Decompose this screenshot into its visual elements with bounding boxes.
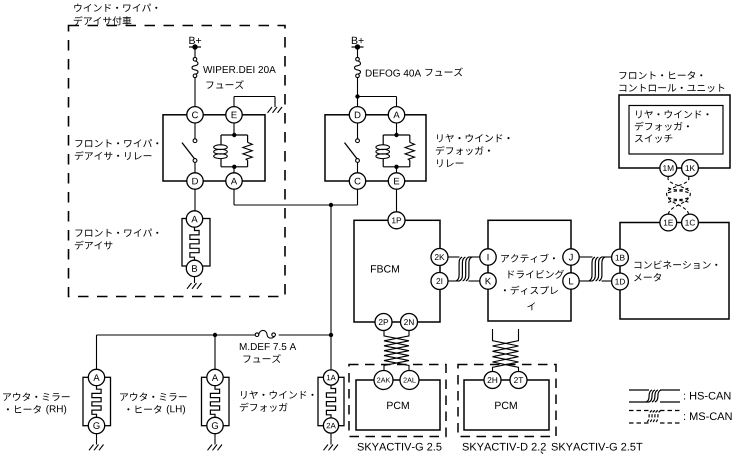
pin A relay K1 <box>226 173 242 189</box>
fuse DEFOG 40A <box>355 57 361 77</box>
wire junction to relay pin A <box>358 97 397 108</box>
pin K display <box>480 273 496 289</box>
front wiper de-icer element <box>182 219 210 267</box>
HS-CAN bus display to combination meter <box>580 257 612 281</box>
label SKYACTIV-G 2.5 <box>357 443 441 451</box>
power B+ (wiper de-icer fuse feed) <box>189 37 201 50</box>
label outer mirror heater LH <box>120 393 186 401</box>
pin D relay K2 <box>349 107 365 123</box>
legend label HS-CAN <box>684 392 730 400</box>
active driving display box <box>488 220 571 321</box>
switch relay K2 <box>345 139 360 163</box>
junction node defogger feed <box>329 203 333 207</box>
PCM box (SKYACTIV-D 2.2 / G 2.5T) <box>464 380 549 430</box>
pin A mirror RH <box>88 369 104 385</box>
MS-CAN bus control unit to meter (twisted pair) <box>668 177 690 214</box>
ground (mirror LH) <box>208 434 223 451</box>
label SKYACTIV-D 2.2, SKYACTIV-G 2.5T <box>462 443 545 451</box>
pin B de-icer <box>186 260 202 276</box>
label rear window defogger relay <box>437 134 509 142</box>
label front wiper de-icer <box>75 229 158 237</box>
pin 1K control unit <box>682 160 699 177</box>
label front wiper de-icer relay <box>75 139 158 147</box>
wire E to coil <box>233 123 235 135</box>
pin 1M control unit <box>660 160 677 177</box>
front heater control unit box <box>619 95 730 168</box>
front heater control unit label <box>619 71 702 79</box>
legend MS-CAN symbol <box>629 410 680 423</box>
wire relay K2 E to FBCM 1P <box>396 189 398 212</box>
wires display to PCM twisted pair <box>493 329 519 337</box>
pin 2I FBCM <box>431 273 448 290</box>
pin C relay K2 <box>349 173 365 189</box>
PCM box (SKYACTIV-G 2.5) <box>356 380 440 430</box>
wire B+ to fuse <box>357 47 359 58</box>
label PCM <box>387 402 409 409</box>
wire E to ground <box>234 97 275 107</box>
pin 2K FBCM <box>431 249 448 266</box>
pin 2AK PCM <box>374 371 393 390</box>
pin E relay K1 <box>226 107 242 123</box>
wire relay K1 D to de-icer pin A <box>194 189 196 211</box>
pin 2AL PCM <box>400 371 419 390</box>
wire coil to E <box>396 167 398 173</box>
pin 1A defogger <box>323 370 338 385</box>
pin C relay K1 <box>187 107 203 123</box>
label DEFOG 40A fuse <box>366 70 421 77</box>
label combination meter <box>635 260 718 269</box>
FBCM box <box>354 220 440 322</box>
ground (mirror RH) <box>89 434 104 451</box>
rear window defogger switch box <box>629 106 723 155</box>
fuse M.DEF 7.5A <box>255 330 275 338</box>
pin G mirror LH <box>207 417 223 433</box>
note: vehicles with window wiper de-icer label <box>74 4 157 12</box>
outer mirror heater LH element <box>202 377 230 425</box>
label active driving display <box>501 254 555 263</box>
pin 1B meter <box>612 249 629 266</box>
heater bus wire (defogger feed) <box>97 335 332 370</box>
wire fuse to relay pin C <box>194 78 196 107</box>
wire B+ to fuse <box>194 47 196 58</box>
fuse WIPER.DEI 20A <box>192 57 198 77</box>
pin L display <box>563 273 579 289</box>
wire C to switch contact <box>194 123 196 139</box>
pin 2N FBCM <box>401 314 418 331</box>
pin 2P FBCM <box>375 314 392 331</box>
power B+ (DEFOG fuse feed) <box>352 37 364 50</box>
relay K1 front wiper de-icer relay box <box>163 115 265 181</box>
outer mirror heater RH element <box>83 377 111 425</box>
junction B+ branch <box>355 94 359 98</box>
wire bus to rear defogger 1A <box>330 335 332 370</box>
wire switch to C <box>357 162 359 172</box>
pin 2T PCM <box>510 372 527 389</box>
pin D relay K1 <box>187 173 203 189</box>
PCM dashed option box (SKYACTIV-D 2.2 / G 2.5T) <box>458 365 556 437</box>
wire junction down to heater bus <box>330 205 332 335</box>
wire D to switch contact <box>357 123 359 139</box>
label outer mirror heater RH <box>3 393 69 401</box>
wire A to coil <box>396 123 398 135</box>
pin I display <box>480 249 496 265</box>
pin 1D meter <box>612 273 629 290</box>
relay K1 coil and resistor <box>214 133 253 169</box>
pin E relay K2 <box>388 173 404 189</box>
HS-CAN twisted pair FBCM to PCM (SKYACTIV-G 2.5) <box>384 331 409 371</box>
wire coil to A <box>233 167 235 173</box>
wire junction to LH heater <box>214 335 216 370</box>
wire switch to D <box>194 162 196 172</box>
pin A mirror LH <box>207 369 223 385</box>
legend HS-CAN symbol <box>629 390 680 402</box>
pin 1C meter <box>682 214 699 231</box>
pin J display <box>563 249 579 265</box>
combination meter box <box>620 223 729 320</box>
pin G mirror RH <box>88 417 104 433</box>
label rear window defogger switch <box>636 110 708 118</box>
HS-CAN twisted pair display to PCM (SKYACTIV-D/G) <box>493 337 519 372</box>
wire fuse to junction <box>357 78 359 107</box>
label rear window defogger <box>241 391 313 399</box>
label PCM <box>495 402 517 409</box>
junction bus right <box>329 333 333 337</box>
junction bus to LH mirror heater <box>213 333 217 337</box>
relay K2 coil and resistor <box>376 133 415 169</box>
pin 2H PCM <box>484 372 501 389</box>
pin A relay K2 <box>388 107 404 123</box>
pin 1E meter <box>660 214 677 231</box>
pin 2A defogger <box>323 418 338 433</box>
pin 1P FBCM <box>388 212 405 229</box>
label WIPER.DEI 20A fuse <box>203 66 276 73</box>
ground (de-icer) <box>187 277 202 289</box>
ground (defogger) <box>324 433 339 450</box>
ground (relay K1 coil) <box>268 101 283 113</box>
legend label MS-CAN <box>684 412 732 420</box>
dashed option box: window wiper de-icer equipment <box>69 26 286 297</box>
PCM dashed option box (SKYACTIV-G 2.5) <box>349 365 446 437</box>
switch relay K1 <box>182 139 197 163</box>
HS-CAN bus FBCM to display <box>448 257 480 281</box>
wire relay K1 A to relay K2 C <box>234 189 358 205</box>
label FBCM <box>371 265 399 272</box>
relay K2 rear window defogger relay box <box>325 115 426 181</box>
label M.DEF 7.5A fuse <box>240 343 296 350</box>
rear window defogger element <box>318 377 344 425</box>
pin A de-icer <box>186 211 202 227</box>
